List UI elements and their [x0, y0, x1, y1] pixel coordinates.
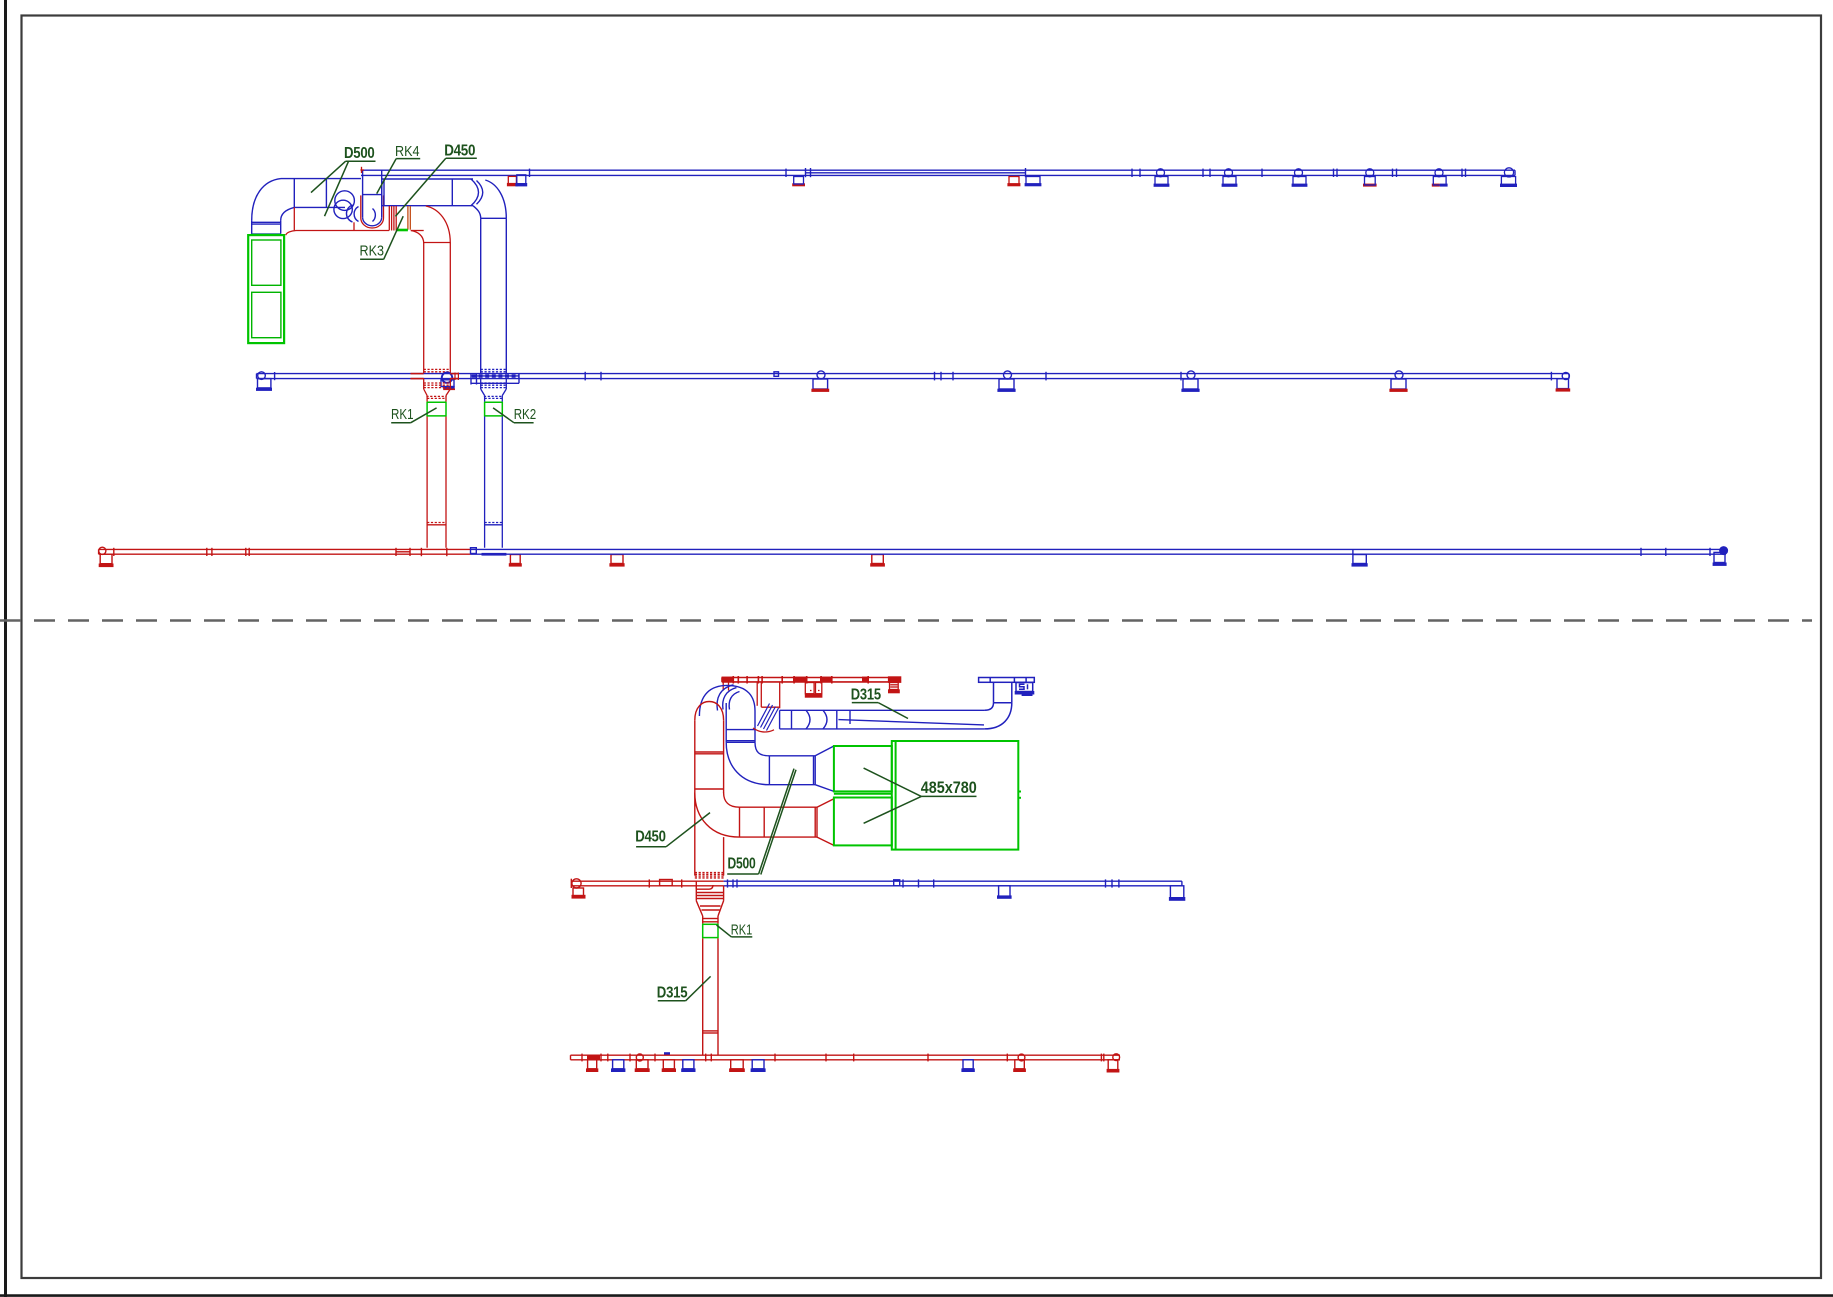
wire joints on top duct	[529, 169, 531, 177]
RK2 vertical duct (blue)	[480, 218, 482, 373]
label D500	[727, 873, 758, 875]
round elbow circles (blue)	[335, 191, 355, 211]
label D315 top	[852, 702, 878, 704]
middle duct left end fitting	[258, 372, 266, 380]
D450 blue duct (big horizontal)	[382, 178, 473, 180]
manifold takeoff boxes	[588, 1060, 597, 1069]
red roof manifold (bottom view top)	[722, 676, 896, 684]
RK2 reducer below middle duct (blue)	[481, 379, 507, 548]
bottom manifold (red)	[571, 1054, 1121, 1070]
label 485x780	[921, 795, 976, 797]
RK4 round duct drop (blue)	[362, 170, 364, 217]
svg-text:D450: D450	[635, 829, 666, 846]
joint below dome	[725, 730, 727, 743]
joints along middle duct	[584, 372, 586, 381]
labels (top view)	[311, 158, 534, 423]
grille collar hatched band	[251, 233, 281, 236]
page left edge bar	[4, 0, 7, 1297]
red D450 riser (bottom view)	[695, 702, 834, 878]
elbow to horizontal	[726, 742, 769, 784]
RK2 elbow (blue)	[485, 180, 506, 218]
blue exhaust flange (top right)	[979, 678, 1035, 729]
D450 end cap arcs	[471, 179, 479, 206]
takeoff fitting boxes under top duct	[508, 176, 1019, 184]
plenum green boxes	[834, 741, 1021, 850]
RK3 spigot hatch (red)	[388, 206, 390, 231]
dashed separator line	[0, 619, 1812, 621]
svg-text:D500: D500	[344, 145, 375, 162]
manifold left drop	[722, 682, 724, 691]
page bottom edge line	[0, 1294, 1833, 1297]
bottom duct run: red left portion	[99, 547, 884, 564]
label RK1	[391, 422, 411, 424]
RK1 reducer below middle duct (red)	[424, 379, 451, 548]
supply grille (green)	[248, 235, 284, 343]
svg-text:D450: D450	[444, 143, 475, 160]
label D500	[346, 160, 376, 162]
D500 elbow (blue outer)	[252, 179, 281, 221]
svg-text:RK3: RK3	[360, 242, 385, 259]
RK2 green damper band	[485, 402, 503, 417]
RK1 green band (bottom view)	[703, 924, 718, 939]
middle duct takeoffs	[817, 371, 825, 379]
svg-text:D315: D315	[851, 687, 882, 704]
dome elbow	[699, 685, 727, 716]
svg-text:RK1: RK1	[731, 922, 753, 939]
RK1 vertical duct (red)	[423, 243, 425, 374]
RK1 elbow (red)	[426, 206, 451, 243]
RK1 green damper band	[427, 402, 446, 417]
svg-text:RK1: RK1	[391, 406, 414, 423]
small blue fitting box	[1016, 683, 1033, 692]
top thin duct run (blue)	[361, 169, 1515, 171]
blue riser elbow assembly (bottom view)	[699, 685, 834, 792]
collar at RK1 crossing	[442, 372, 452, 382]
D500 blue duct (upper-left horizontal)	[281, 178, 361, 180]
horizontal D500 blue duct	[769, 755, 815, 757]
flex connector hatch	[758, 704, 779, 731]
D315 horizontal duct (blue)	[780, 710, 985, 729]
label D450	[446, 157, 477, 159]
svg-text:RK4: RK4	[395, 143, 420, 160]
D315 riser below (red)	[696, 886, 723, 1055]
red arc under dome	[753, 728, 774, 732]
branch elbow to plenum	[695, 793, 740, 838]
transition to plenum	[815, 746, 834, 756]
D500 red duct (lower horizontal)	[293, 207, 295, 230]
svg-text:D500: D500	[728, 856, 756, 873]
svg-text:485x780: 485x780	[921, 779, 977, 797]
middle duct run (blue)	[257, 373, 1570, 375]
svg-text:RK2: RK2	[514, 406, 537, 423]
RK3 green band	[396, 229, 408, 232]
manifold end fitting sub-box	[890, 683, 899, 690]
label RK1	[731, 936, 752, 938]
label D315 lower	[658, 1000, 686, 1002]
labels (bottom view)	[636, 703, 976, 1001]
collar at RK2 crossing	[471, 375, 519, 377]
RK4 red outline	[360, 195, 362, 218]
rectangular drop duct	[760, 682, 762, 707]
middle duct run (bottom view)	[571, 879, 723, 897]
label RK3	[360, 258, 384, 260]
manifold takeoff boxes	[805, 683, 814, 694]
label D450	[636, 846, 666, 848]
label RK4	[396, 158, 420, 160]
label RK2	[514, 422, 534, 424]
bottom duct run: blue right portion	[471, 547, 1728, 564]
svg-text:D315: D315	[657, 985, 688, 1002]
riser joints	[695, 872, 724, 874]
